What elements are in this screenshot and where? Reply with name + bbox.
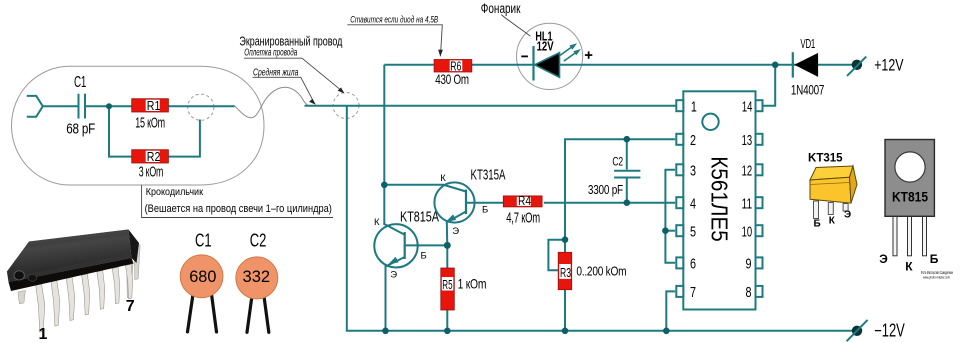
svg-text:C1: C1 bbox=[74, 74, 86, 91]
svg-text:15 кOm: 15 кOm bbox=[135, 115, 165, 132]
svg-text:Оплетка провода: Оплетка провода bbox=[244, 47, 297, 58]
svg-text:KT315: KT315 bbox=[808, 151, 843, 165]
svg-text:VD1: VD1 bbox=[800, 36, 815, 51]
svg-text:К: К bbox=[829, 215, 836, 226]
svg-text:3: 3 bbox=[690, 163, 696, 180]
svg-text:R6: R6 bbox=[450, 58, 461, 73]
svg-text:KT815: KT815 bbox=[892, 188, 928, 204]
svg-text:332: 332 bbox=[243, 267, 271, 286]
svg-text:Крокодильчик: Крокодильчик bbox=[146, 186, 204, 198]
svg-text:Б: Б bbox=[421, 251, 427, 262]
svg-text:R1: R1 bbox=[147, 98, 161, 113]
svg-text:Б: Б bbox=[482, 204, 488, 215]
svg-text:KT815A: KT815A bbox=[400, 208, 439, 225]
svg-text:68 pF: 68 pF bbox=[66, 121, 95, 138]
svg-text:Э: Э bbox=[452, 226, 459, 237]
svg-text:C2: C2 bbox=[612, 154, 623, 168]
svg-text:Экранированный провод: Экранированный провод bbox=[239, 34, 342, 49]
svg-text:7: 7 bbox=[126, 298, 135, 315]
svg-text:3300 pF: 3300 pF bbox=[588, 182, 623, 197]
svg-text:К: К bbox=[905, 259, 913, 273]
svg-text:5: 5 bbox=[690, 223, 696, 240]
svg-text:Б: Б bbox=[814, 219, 821, 230]
svg-text:R5: R5 bbox=[442, 277, 452, 292]
svg-text:R3: R3 bbox=[560, 265, 571, 280]
svg-text:1: 1 bbox=[691, 99, 697, 116]
svg-text:1N4007: 1N4007 bbox=[791, 83, 824, 98]
svg-text:3 кOm: 3 кOm bbox=[139, 164, 164, 181]
svg-text:12V: 12V bbox=[537, 39, 554, 54]
svg-text:+12V: +12V bbox=[874, 55, 904, 74]
svg-text:8: 8 bbox=[746, 284, 752, 301]
svg-text:14: 14 bbox=[742, 99, 753, 116]
svg-text:C2: C2 bbox=[250, 231, 267, 251]
svg-text:R2: R2 bbox=[147, 149, 161, 164]
svg-text:R4: R4 bbox=[518, 194, 531, 208]
svg-text:7: 7 bbox=[690, 284, 696, 301]
svg-text:680: 680 bbox=[189, 267, 216, 286]
svg-text:−12V: −12V bbox=[874, 321, 905, 341]
svg-text:13: 13 bbox=[742, 132, 753, 149]
svg-text:2: 2 bbox=[690, 132, 696, 149]
svg-text:430 Om: 430 Om bbox=[435, 71, 469, 87]
svg-text:К: К bbox=[440, 173, 446, 184]
svg-text:1: 1 bbox=[39, 326, 48, 343]
svg-text:C1: C1 bbox=[195, 231, 212, 251]
svg-text:10: 10 bbox=[742, 223, 753, 240]
svg-text:(Вешается на провод свечи 1–го: (Вешается на провод свечи 1–го цилиндра) bbox=[145, 203, 332, 215]
svg-text:Ставится если диод на 4,5В: Ставится если диод на 4,5В bbox=[350, 14, 438, 24]
svg-text:4,7 кOm: 4,7 кOm bbox=[506, 210, 540, 227]
svg-text:Средняя жила: Средняя жила bbox=[253, 68, 299, 79]
svg-text:0..200 kOm: 0..200 kOm bbox=[576, 264, 626, 279]
svg-text:www.photo-master.com: www.photo-master.com bbox=[923, 276, 950, 280]
svg-text:Фонарик: Фонарик bbox=[481, 1, 521, 16]
svg-text:Э: Э bbox=[844, 210, 851, 221]
svg-text:Фото-Мастерская Самоделкин: Фото-Мастерская Самоделкин bbox=[921, 270, 953, 275]
svg-text:11: 11 bbox=[742, 195, 753, 212]
svg-text:9: 9 bbox=[746, 256, 752, 273]
svg-text:12: 12 bbox=[742, 163, 753, 180]
svg-text:К561ЛЕ5: К561ЛЕ5 bbox=[707, 156, 733, 242]
svg-text:Э: Э bbox=[390, 269, 397, 280]
svg-text:Б: Б bbox=[930, 252, 939, 266]
svg-text:4: 4 bbox=[690, 195, 696, 212]
svg-text:6: 6 bbox=[690, 256, 696, 273]
svg-text:К: К bbox=[374, 217, 380, 228]
svg-text:1 кOm: 1 кOm bbox=[458, 276, 487, 292]
svg-text:Э: Э bbox=[879, 252, 888, 266]
svg-text:KT315A: KT315A bbox=[471, 167, 506, 184]
